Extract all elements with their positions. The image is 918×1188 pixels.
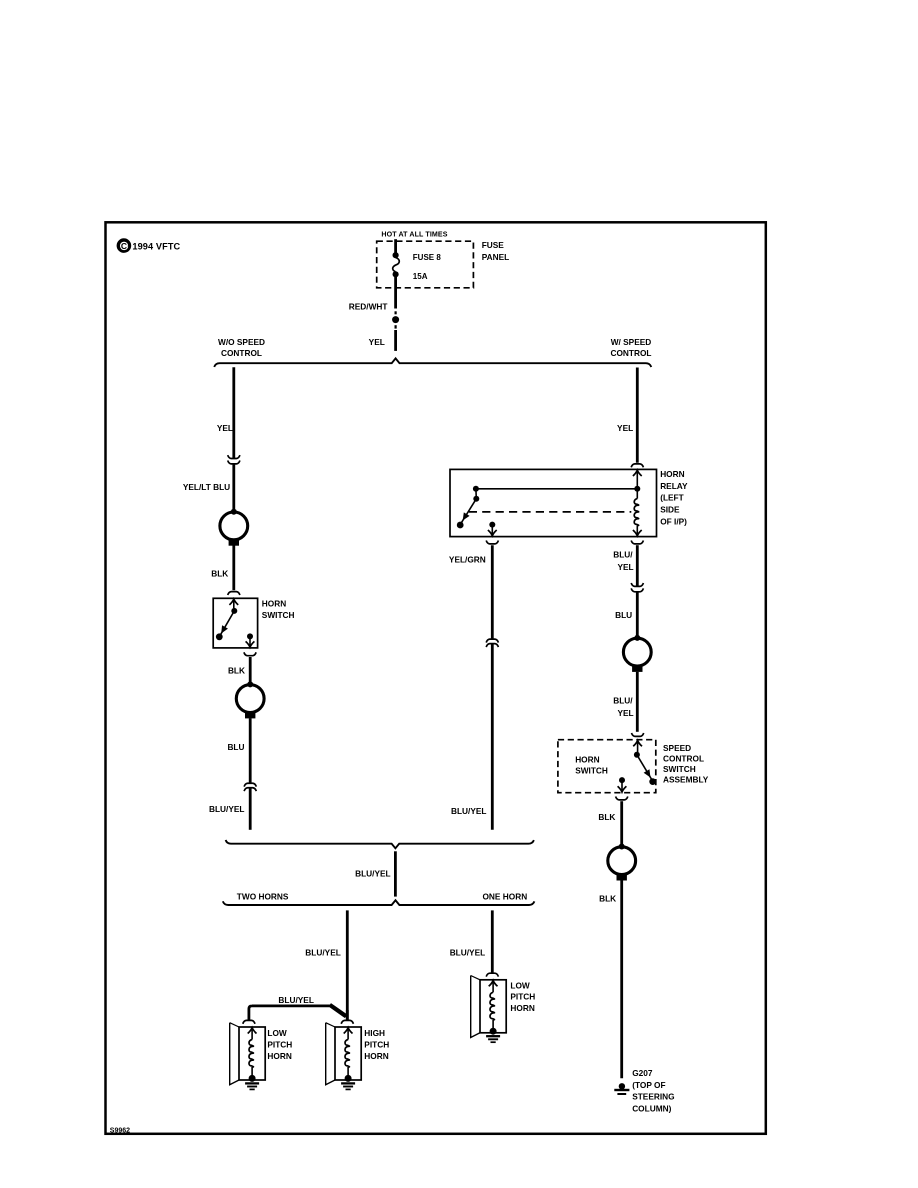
svg-text:BLK: BLK	[599, 894, 616, 904]
high pitch horn	[326, 1020, 362, 1089]
inline connector BLU/YEL to BLU	[631, 583, 643, 586]
wire BLK below speed control switch	[620, 801, 623, 847]
fuse FUSE 8 15A	[393, 252, 400, 277]
svg-text:SPEED: SPEED	[663, 743, 691, 753]
svg-text:BLU/YEL: BLU/YEL	[278, 995, 314, 1005]
label HORN SWITCH	[262, 599, 295, 621]
svg-text:HOT AT ALL TIMES: HOT AT ALL TIMES	[381, 231, 447, 239]
svg-text:ONE HORN: ONE HORN	[482, 892, 527, 902]
svg-text:CONTROL: CONTROL	[610, 348, 651, 358]
label FUSE PANEL	[482, 240, 510, 262]
wire RED/WHT below fuse	[394, 277, 397, 309]
svg-text:PITCH: PITCH	[510, 992, 535, 1002]
svg-text:BLU: BLU	[615, 610, 632, 620]
wire BLU/YEL to speed control switch	[636, 672, 639, 732]
svg-text:BLU/YEL: BLU/YEL	[305, 948, 341, 958]
inline connector on left branch	[228, 455, 240, 458]
wire YEL into split	[394, 330, 397, 351]
splitter bus TWO HORNS vs ONE HORN	[223, 900, 535, 905]
wire BLU/YEL one-horn branch	[491, 910, 494, 972]
fuse panel dashed box	[377, 241, 474, 288]
svg-text:BLU/YEL: BLU/YEL	[355, 869, 391, 879]
svg-text:BLU/: BLU/	[613, 550, 633, 560]
connector ring C4 right branch	[608, 844, 636, 881]
svg-text:ASSEMBLY: ASSEMBLY	[663, 775, 709, 785]
connector ring C3 right branch	[623, 635, 651, 672]
wire BLU/YEL branch to low pitch horn	[249, 1005, 347, 1021]
svg-text:BLU/YEL: BLU/YEL	[451, 806, 487, 816]
svg-text:(TOP OF: (TOP OF	[632, 1080, 665, 1090]
low pitch horn (one horn)	[471, 973, 507, 1042]
svg-text:LOW: LOW	[510, 980, 530, 990]
svg-text:YEL: YEL	[617, 708, 633, 718]
horn switch internals	[216, 599, 254, 647]
label HORN RELAY (LEFT SIDE OF I/P)	[660, 469, 688, 527]
collector bus joining BLU/YEL wires	[226, 840, 534, 848]
svg-text:BLK: BLK	[598, 812, 615, 822]
svg-text:HORN: HORN	[510, 1003, 534, 1013]
connector below relay right output	[631, 541, 643, 544]
wire YEL/GRN	[491, 545, 494, 638]
connector at speed control switch entry	[632, 733, 644, 736]
svg-text:HORN: HORN	[575, 754, 599, 764]
svg-text:STEERING: STEERING	[632, 1092, 674, 1102]
svg-text:RELAY: RELAY	[660, 481, 688, 491]
wire BLU	[249, 718, 252, 783]
svg-text:LOW: LOW	[267, 1028, 287, 1038]
splice below fuse	[392, 311, 399, 328]
high pitch horn label	[364, 1028, 389, 1061]
svg-text:YEL/GRN: YEL/GRN	[449, 555, 486, 565]
label BLU/ YEL above speed control switch	[613, 696, 633, 719]
inline connector YEL/GRN to BLU/YEL	[486, 639, 498, 642]
wire BLK to horn switch	[232, 546, 235, 591]
svg-text:OF I/P): OF I/P)	[660, 517, 687, 527]
svg-text:BLU/: BLU/	[613, 696, 633, 706]
split bus W/O SPEED CONTROL vs W/ SPEED CONTROL	[214, 358, 651, 367]
connector at horn relay entry	[631, 464, 643, 467]
low pitch horn (two horns)	[230, 1020, 266, 1089]
wire BLK to ground G207	[620, 880, 623, 1078]
inline connector BLU to BLU/YEL	[244, 783, 256, 786]
horn relay coil	[633, 489, 642, 536]
svg-text:SWITCH: SWITCH	[575, 766, 608, 776]
connector below horn switch	[244, 652, 256, 655]
svg-text:HORN: HORN	[262, 599, 286, 609]
wire BLU/YEL from collector to splitter	[394, 851, 397, 896]
horn relay internals	[457, 470, 642, 536]
svg-text:BLK: BLK	[211, 568, 228, 578]
svg-text:YEL/LT BLU: YEL/LT BLU	[183, 482, 230, 492]
svg-text:SWITCH: SWITCH	[262, 610, 295, 620]
wire into high pitch horn	[346, 1014, 349, 1021]
connector ring C2 left branch	[236, 681, 264, 718]
horn relay box	[450, 469, 657, 536]
svg-text:HORN: HORN	[660, 469, 684, 479]
wire BLU/YEL two-horns branch	[346, 910, 349, 1014]
wire YEL right branch	[636, 368, 639, 463]
svg-text:PITCH: PITCH	[364, 1040, 389, 1050]
svg-text:RED/WHT: RED/WHT	[349, 301, 388, 311]
svg-text:HIGH: HIGH	[364, 1028, 385, 1038]
svg-text:FUSE 8: FUSE 8	[413, 253, 442, 262]
svg-text:W/O SPEED: W/O SPEED	[218, 337, 265, 347]
svg-text:SWITCH: SWITCH	[663, 764, 696, 774]
speed control switch internals	[618, 741, 657, 793]
svg-text:FUSE: FUSE	[482, 240, 505, 250]
wire YEL/LT BLU	[232, 464, 235, 511]
svg-text:YEL: YEL	[617, 423, 633, 433]
svg-text:CONTROL: CONTROL	[663, 753, 704, 763]
label W/ SPEED CONTROL	[610, 337, 651, 358]
speed control switch assembly dashed box	[558, 740, 656, 793]
low pitch horn (one horn) label	[510, 980, 535, 1013]
svg-text:COLUMN): COLUMN)	[632, 1103, 671, 1113]
svg-text:S9962: S9962	[110, 1127, 130, 1134]
connector below relay left output	[486, 541, 498, 544]
wire BLK below horn switch	[249, 657, 252, 684]
label SPEED CONTROL SWITCH ASSEMBLY	[663, 743, 709, 785]
copyright 1994 VFTC	[118, 240, 180, 252]
svg-text:C: C	[121, 241, 127, 251]
connector at horn switch entry	[228, 592, 240, 595]
wire YEL left branch	[232, 367, 235, 458]
svg-text:BLK: BLK	[228, 666, 245, 676]
svg-text:PITCH: PITCH	[267, 1040, 292, 1050]
svg-text:PANEL: PANEL	[482, 252, 510, 262]
connector below speed control switch	[616, 797, 628, 800]
wire BLU/YEL to collector	[249, 788, 252, 830]
label W/O SPEED CONTROL	[218, 337, 265, 358]
horn switch box	[213, 598, 257, 648]
svg-text:15A: 15A	[413, 272, 428, 281]
svg-text:BLU/YEL: BLU/YEL	[209, 804, 245, 814]
svg-text:SIDE: SIDE	[660, 505, 680, 515]
svg-text:CONTROL: CONTROL	[221, 348, 262, 358]
svg-text:TWO HORNS: TWO HORNS	[237, 892, 289, 902]
svg-text:HORN: HORN	[364, 1051, 388, 1061]
wire BLU/YEL middle to collector	[491, 644, 494, 830]
label BLU/ YEL below relay	[613, 550, 633, 573]
svg-text:BLU/YEL: BLU/YEL	[450, 948, 486, 958]
low pitch horn (two horns) label	[267, 1028, 292, 1061]
svg-text:HORN: HORN	[267, 1051, 291, 1061]
wire BLU right branch	[636, 592, 639, 638]
wire BLU/YEL below relay	[636, 545, 639, 586]
svg-text:G207: G207	[632, 1068, 653, 1078]
wire from HOT AT ALL TIMES into fuse panel	[394, 239, 397, 253]
page frame	[106, 222, 766, 1134]
svg-text:YEL: YEL	[617, 562, 633, 572]
label G207 (TOP OF STEERING COLUMN)	[632, 1068, 674, 1113]
svg-text:YEL: YEL	[369, 337, 385, 347]
svg-text:YEL: YEL	[217, 423, 233, 433]
label HORN SWITCH inside speed control box	[575, 754, 608, 775]
connector ring C1 left branch	[220, 509, 248, 546]
svg-text:1994 VFTC: 1994 VFTC	[132, 242, 180, 252]
ground G207	[614, 1083, 629, 1094]
svg-text:BLU: BLU	[227, 742, 244, 752]
svg-text:(LEFT: (LEFT	[660, 493, 684, 503]
svg-text:W/ SPEED: W/ SPEED	[611, 337, 652, 347]
